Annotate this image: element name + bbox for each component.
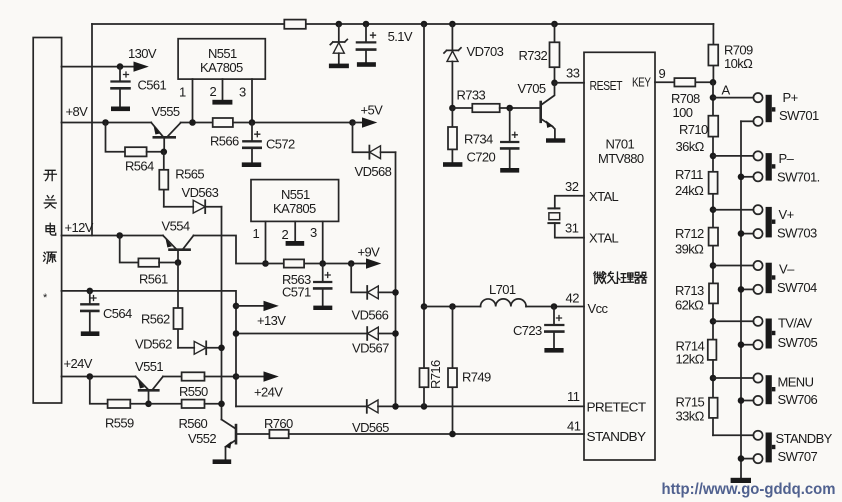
node top rail / R732 xyxy=(551,21,558,28)
svg-text:R711: R711 xyxy=(675,167,703,182)
svg-text:XTAL: XTAL xyxy=(589,189,619,204)
svg-text:+13V: +13V xyxy=(257,313,286,328)
svg-text:24kΩ: 24kΩ xyxy=(675,183,704,198)
+9V output arrow xyxy=(358,245,382,269)
svg-text:+5V: +5V xyxy=(361,103,384,118)
svg-text:KA7805: KA7805 xyxy=(200,60,243,75)
+5V output arrow xyxy=(353,103,384,128)
node ladder TV/AV tap xyxy=(710,318,717,325)
node +9V rail / pin1 xyxy=(262,260,269,267)
svg-text:L701: L701 xyxy=(489,282,516,297)
node 130V / C561 xyxy=(117,63,124,70)
svg-text:V551: V551 xyxy=(135,359,163,374)
svg-text:MTV880: MTV880 xyxy=(598,151,644,166)
pin 1 xyxy=(265,221,267,263)
svg-text:2: 2 xyxy=(210,84,217,99)
svg-text:2: 2 xyxy=(282,227,289,242)
+24V output arrow xyxy=(236,371,283,399)
svg-text:R562: R562 xyxy=(141,312,170,327)
svg-text:R760: R760 xyxy=(264,416,293,431)
svg-text:1: 1 xyxy=(253,226,260,241)
svg-text:N551: N551 xyxy=(281,187,310,202)
diode VD562 xyxy=(135,337,222,355)
diode VD563 xyxy=(164,185,222,213)
svg-text:N551: N551 xyxy=(208,46,237,61)
wire vertical VD568/VD566/VD567 to PRETECT xyxy=(395,152,397,406)
svg-text:SW705: SW705 xyxy=(778,335,818,350)
wire +8V from box xyxy=(61,122,151,124)
svg-text:32: 32 xyxy=(565,179,579,194)
wire +12V from box xyxy=(61,235,163,237)
svg-text:12kΩ: 12kΩ xyxy=(676,352,705,367)
svg-text:31: 31 xyxy=(565,221,579,236)
node Vcc / R749 xyxy=(449,303,456,310)
svg-text:SW704: SW704 xyxy=(777,280,817,295)
resistor R714 xyxy=(676,339,717,367)
svg-text:V–: V– xyxy=(779,262,795,277)
node top rail / zener xyxy=(336,21,343,28)
node VD567 / pretect riser xyxy=(392,330,399,337)
resistor R760 xyxy=(264,416,584,438)
IC U551 N551 KA7805 (upper) xyxy=(178,39,265,123)
+13V output arrow xyxy=(236,301,286,328)
switch SW705 TV/AV xyxy=(713,316,818,351)
svg-text:VD563: VD563 xyxy=(182,185,219,200)
pin 1 xyxy=(192,79,194,122)
svg-text:62kΩ: 62kΩ xyxy=(675,298,704,313)
switch SW704 V- xyxy=(713,261,817,295)
svg-text:SW703: SW703 xyxy=(777,226,817,241)
pin 3 xyxy=(251,79,253,122)
capacitor C720 xyxy=(467,108,520,173)
wire +13V feed from box xyxy=(61,291,236,407)
resistor R710 xyxy=(676,116,719,154)
node +9V rail / pin3 / C571 xyxy=(319,260,326,267)
resistor R734 xyxy=(443,108,493,167)
130V output arrow xyxy=(134,62,149,72)
svg-text:Vcc: Vcc xyxy=(588,301,609,316)
IC U552 N551 KA7805 (lower) xyxy=(251,180,339,264)
node ladder MENU tap xyxy=(710,375,717,382)
svg-text:A: A xyxy=(722,83,731,98)
svg-text:SW707: SW707 xyxy=(778,449,818,464)
wire KEY pin 9 line xyxy=(655,81,713,83)
resistor R716 xyxy=(420,24,444,406)
svg-text:VD565: VD565 xyxy=(352,420,389,435)
switching power supply box 开关电源 xyxy=(33,38,61,404)
svg-text:10kΩ: 10kΩ xyxy=(724,56,753,71)
pin 3 xyxy=(322,221,324,263)
svg-text:3: 3 xyxy=(239,85,246,100)
node VD565 / pretect riser xyxy=(392,403,399,410)
svg-text:130V: 130V xyxy=(128,46,157,61)
node Vcc line / R716 riser xyxy=(421,303,428,310)
svg-text:33: 33 xyxy=(566,66,580,81)
capacitor C723 xyxy=(513,307,564,353)
svg-text:+8V: +8V xyxy=(66,104,89,119)
svg-text:SW701: SW701 xyxy=(779,108,819,123)
svg-text:KA7805: KA7805 xyxy=(273,201,316,216)
node top rail / VD703 xyxy=(449,21,456,28)
svg-text:C561: C561 xyxy=(138,78,167,93)
node V554 base / R561 / R562 xyxy=(175,259,182,266)
node +8V / R564 branch xyxy=(102,119,109,126)
switch SW706 MENU xyxy=(713,373,818,407)
transistor V555 xyxy=(151,104,180,152)
capacitor C572 xyxy=(242,123,295,168)
resistor R550 xyxy=(179,372,236,399)
wire top rail from +12V riser to keypad corner xyxy=(92,23,713,25)
resistor R565 xyxy=(159,152,204,207)
node +13V arrow xyxy=(233,303,240,310)
svg-text:V705: V705 xyxy=(518,81,546,96)
resistor (unmarked, top rail) xyxy=(284,20,306,29)
wire +9V rail xyxy=(266,263,367,265)
wire Vcc line xyxy=(424,306,584,308)
svg-text:R564: R564 xyxy=(125,159,154,174)
svg-text:VD568: VD568 xyxy=(355,164,392,179)
node ladder V+ tap xyxy=(710,206,717,213)
svg-text:R712: R712 xyxy=(675,226,704,241)
svg-text:P+: P+ xyxy=(783,90,798,105)
node ladder P- tap xyxy=(710,153,717,160)
wire keypad ladder vertical xyxy=(712,82,714,435)
node VD567 left xyxy=(233,330,240,337)
svg-text:C572: C572 xyxy=(266,137,295,152)
svg-text:R733: R733 xyxy=(457,88,486,103)
svg-text:PRETECT: PRETECT xyxy=(587,400,647,415)
svg-text:STANDBY: STANDBY xyxy=(587,429,647,444)
node +12V / R561 branch xyxy=(116,232,123,239)
svg-text:5.1V: 5.1V xyxy=(388,29,413,44)
svg-text:KEY: KEY xyxy=(632,75,651,90)
svg-text:R715: R715 xyxy=(676,395,705,410)
resistor R715 xyxy=(676,395,718,424)
wire V554 collector to +9V rail xyxy=(194,236,266,264)
diode VD567 xyxy=(236,327,396,355)
svg-text:http://www.go-gddq.com: http://www.go-gddq.com xyxy=(662,481,836,498)
zener diode VD703 xyxy=(444,24,504,108)
resistor R564 xyxy=(106,123,164,174)
svg-text:R550: R550 xyxy=(179,384,208,399)
node VD703 / R733 / R734 xyxy=(449,105,456,112)
svg-text:VD567: VD567 xyxy=(352,341,389,356)
resistor R733 xyxy=(452,88,540,113)
svg-text:R708: R708 xyxy=(671,91,700,106)
node +8V / N551 pin3 / C572 xyxy=(249,119,256,126)
wire RESET pin 33 xyxy=(555,82,585,84)
svg-text:VD703: VD703 xyxy=(467,44,504,59)
transistor V554 xyxy=(162,219,194,263)
ground keypad bus xyxy=(731,478,751,483)
svg-text:*: * xyxy=(43,292,48,304)
svg-text:C564: C564 xyxy=(103,306,132,321)
wire +24V from box xyxy=(61,376,135,378)
node V551 base / R559 / R560 xyxy=(145,401,152,408)
node VD566 / pretect riser xyxy=(392,289,399,296)
wire vertical VD563-VD562-V552 collector xyxy=(221,207,223,420)
svg-text:39kΩ: 39kΩ xyxy=(675,242,704,257)
pin 2 with ground xyxy=(294,221,296,241)
node +9V takeoff / VD566 xyxy=(348,260,355,267)
svg-text:+12V: +12V xyxy=(65,220,94,235)
svg-text:+9V: +9V xyxy=(358,245,381,260)
node top rail / R716 riser xyxy=(421,21,428,28)
node top rail / 5.1V cap xyxy=(363,21,370,28)
svg-text:R561: R561 xyxy=(139,272,168,287)
resistor R712 xyxy=(675,226,718,257)
svg-text:+24V: +24V xyxy=(254,385,283,400)
svg-text:R716: R716 xyxy=(428,360,443,389)
node +24V arrow / R550 xyxy=(233,373,240,380)
svg-text:R713: R713 xyxy=(675,283,704,298)
transistor V705 xyxy=(518,81,566,143)
resistor R562 xyxy=(141,263,183,348)
transistor V551 xyxy=(135,359,163,404)
svg-text:V552: V552 xyxy=(188,431,216,446)
pin 2 with ground xyxy=(222,79,224,100)
svg-text:R732: R732 xyxy=(519,48,548,63)
svg-text:SW706: SW706 xyxy=(778,392,818,407)
svg-text:VD566: VD566 xyxy=(352,308,389,323)
svg-text:C571: C571 xyxy=(282,285,311,300)
capacitor C564 xyxy=(81,288,132,336)
node R732 / V705 collector / RESET xyxy=(551,80,558,87)
node VD562 / V552 collector line xyxy=(218,345,225,352)
resistor R559 xyxy=(90,377,149,431)
svg-text:SW701.: SW701. xyxy=(777,170,820,185)
node R560 / V552 collector xyxy=(218,401,225,408)
svg-text:R749: R749 xyxy=(462,370,491,385)
svg-text:R559: R559 xyxy=(105,416,134,431)
svg-text:R566: R566 xyxy=(210,134,239,149)
resistor R713 xyxy=(675,283,718,313)
switch SW707 STANDBY xyxy=(713,431,833,464)
node Vcc / C723 xyxy=(551,303,558,310)
capacitor C571 xyxy=(282,264,332,311)
switch SW701 P+ xyxy=(713,90,819,126)
resistor R561 xyxy=(120,236,178,287)
wire PRETECT line xyxy=(236,405,584,407)
node R733 / C720 / V705 base xyxy=(506,105,513,112)
node +5V takeoff xyxy=(349,119,356,126)
svg-text:R565: R565 xyxy=(175,167,204,182)
svg-text:11: 11 xyxy=(567,389,580,404)
svg-text:41: 41 xyxy=(567,419,581,434)
resistor R708 xyxy=(671,78,700,120)
svg-text:33kΩ: 33kΩ xyxy=(676,409,705,424)
resistor R749 xyxy=(448,307,491,435)
inductor L701 xyxy=(481,282,527,307)
crystal X701 with XTAL pins 32/31 xyxy=(548,196,584,238)
zener diode 5.1V (with ground) xyxy=(329,24,349,68)
diode VD566 xyxy=(351,264,395,323)
svg-text:R710: R710 xyxy=(679,122,708,137)
svg-text:V554: V554 xyxy=(162,219,190,234)
svg-text:3: 3 xyxy=(310,225,317,240)
svg-text:C720: C720 xyxy=(467,150,496,165)
transistor V552 xyxy=(188,420,269,465)
svg-text:V555: V555 xyxy=(152,104,180,119)
switch SW701 P- xyxy=(713,151,820,185)
wire +12V riser x=92 xyxy=(91,24,93,236)
wire V551 collector to R550 xyxy=(163,376,182,378)
resistor R566 xyxy=(210,118,239,149)
svg-text:RESET: RESET xyxy=(590,78,623,93)
resistor R560 xyxy=(149,400,222,431)
node +24V / R559 branch xyxy=(87,373,94,380)
resistor R709 xyxy=(708,24,753,82)
svg-text:36kΩ: 36kΩ xyxy=(676,139,705,154)
svg-text:100: 100 xyxy=(673,105,693,120)
wire switch common bus xyxy=(740,121,742,478)
wire 130V from box xyxy=(61,66,133,68)
svg-text:R734: R734 xyxy=(464,132,493,147)
resistor R732 xyxy=(519,24,560,83)
node KEY / R709 / ladder xyxy=(710,79,717,86)
svg-text:VD562: VD562 xyxy=(135,337,172,352)
svg-text:XTAL: XTAL xyxy=(589,231,619,246)
svg-text:42: 42 xyxy=(566,291,580,306)
node R749 / standby line xyxy=(449,431,456,438)
svg-text:+24V: +24V xyxy=(64,356,93,371)
diode VD568 xyxy=(353,123,396,180)
IC N701 MTV880 microprocessor box xyxy=(565,52,655,460)
node pretect / R716 xyxy=(421,403,428,410)
svg-text:1: 1 xyxy=(179,85,186,100)
node +8V / N551 pin1 xyxy=(189,119,196,126)
svg-text:R560: R560 xyxy=(179,416,208,431)
capacitor C561 xyxy=(111,67,167,112)
svg-text:9: 9 xyxy=(659,66,666,81)
svg-text:MENU: MENU xyxy=(778,375,814,390)
node V555 base / R564 / R565 xyxy=(161,149,168,156)
resistor R563 xyxy=(282,259,311,287)
svg-text:N701: N701 xyxy=(606,137,635,152)
svg-text:V+: V+ xyxy=(779,207,794,222)
node ladder V- tap xyxy=(710,262,717,269)
wire +8V rail to N551 pin1 and onward xyxy=(181,122,353,124)
node A xyxy=(710,94,717,101)
diode VD565 xyxy=(352,400,389,435)
capacitor 5.1V filter xyxy=(357,24,413,67)
resistor R711 xyxy=(675,167,718,198)
svg-text:TV/AV: TV/AV xyxy=(778,316,813,331)
svg-text:STANDBY: STANDBY xyxy=(776,431,833,446)
svg-text:C723: C723 xyxy=(513,323,542,338)
switch SW703 V+ xyxy=(713,205,817,240)
svg-text:P–: P– xyxy=(779,151,795,166)
